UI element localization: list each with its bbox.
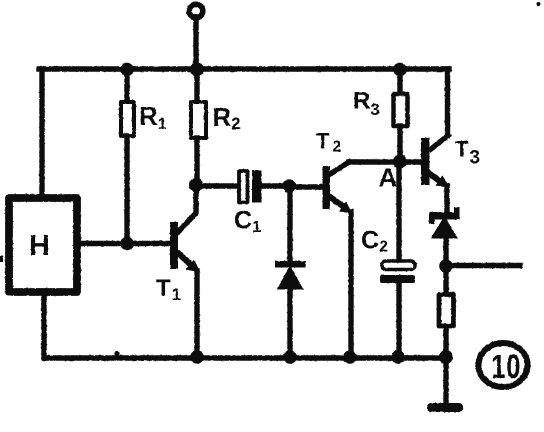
transistor T3 [421, 136, 480, 189]
wire D1 anode to ground rail [287, 289, 292, 358]
node junction C1 / diode / T2 base [282, 179, 296, 193]
svg-text:R3: R3 [353, 88, 380, 120]
svg-text:C1: C1 [234, 207, 261, 237]
wire H bottom to ground rail [41, 292, 46, 358]
capacitor C1 [234, 171, 262, 237]
diode D1 [275, 261, 306, 290]
node A junction [393, 155, 407, 169]
wire node to T2 base [289, 184, 322, 189]
resistor R3 [353, 69, 408, 162]
wire R4 to ground rail [443, 327, 448, 358]
wire output node down to R4 [443, 266, 448, 294]
wire top supply rail [39, 66, 449, 71]
wire T2 base node down to diode D1 [287, 186, 292, 261]
ground [427, 403, 463, 412]
transistor T1 [156, 185, 201, 304]
wire D2 anode to output node [443, 237, 448, 266]
svg-text:T1: T1 [156, 275, 181, 304]
node junction R2 bottom / C1 / T1 collector [189, 178, 203, 192]
svg-text:T3: T3 [455, 137, 480, 169]
wire node A down to C2 [396, 162, 401, 261]
transistor T2 [316, 129, 353, 214]
wire bottom ground rail [44, 355, 446, 360]
node junction R1 / H wire [120, 237, 134, 251]
svg-text:A: A [379, 163, 398, 193]
wire T2 collector to node A and T3 base [349, 159, 421, 164]
node junction on rail at R1 [120, 63, 134, 77]
node junction T2 emitter / ground rail [343, 350, 357, 364]
wire R2 node to C1 [196, 183, 238, 188]
node junction D1 / ground rail [283, 350, 297, 364]
resistor R4 [439, 295, 454, 327]
node junction C2 / ground rail [391, 350, 405, 364]
wire output to right edge [446, 263, 520, 268]
node junction T1 emitter / ground rail [190, 350, 204, 364]
node junction on rail at R2 [190, 63, 204, 77]
capacitor C2 [361, 227, 415, 284]
wire H output to T1 base [79, 241, 170, 246]
wire ground rail to ground symbol [443, 357, 448, 403]
svg-text:H: H [29, 230, 50, 262]
wire terminal to rail [193, 17, 198, 69]
wire left rail down to H block [39, 69, 44, 194]
block H [9, 198, 77, 292]
wire T3 emitter down to zener [444, 186, 449, 212]
scan speck left edge [0, 256, 3, 262]
svg-text:C2: C2 [361, 227, 388, 256]
node junction R4 / ground rail [439, 350, 453, 364]
scan speck on ground rail [114, 351, 119, 356]
svg-text:R1: R1 [139, 101, 167, 133]
node junction on rail at R3 [393, 63, 407, 77]
svg-text:10: 10 [491, 349, 520, 386]
svg-text:R2: R2 [213, 102, 241, 133]
resistor R2 [191, 69, 240, 185]
wire T1 emitter to ground rail [194, 271, 199, 358]
terminal input circle [189, 4, 203, 18]
wire T2 emitter to ground rail [348, 212, 353, 358]
wire C2 to ground rail [396, 283, 401, 358]
figure number 10 badge [479, 343, 528, 387]
node junction output [439, 259, 453, 273]
wire top rail right bend down to T3 collector [445, 69, 450, 136]
wire C1 to T2 base node [262, 183, 289, 188]
scan speck top right [537, 2, 541, 6]
zener diode D2 [429, 207, 460, 239]
resistor R1 [121, 69, 167, 243]
svg-text:T2: T2 [316, 129, 341, 156]
